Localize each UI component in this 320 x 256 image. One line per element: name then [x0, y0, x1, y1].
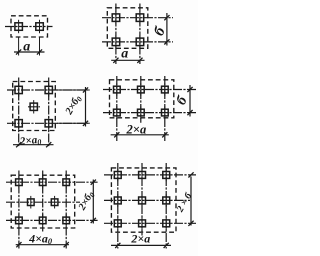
- fig6 pile 2: [139, 169, 146, 182]
- fig3 extension lines right: [57, 90, 90, 123]
- fig1 cap dashed rectangle: [11, 16, 48, 37]
- dimension 2xa0 (fig3 bottom): [13, 142, 54, 147]
- fig6 pile 7: [114, 217, 121, 230]
- fig4 pile 3: [162, 83, 169, 96]
- fig2 pile 1: [112, 11, 120, 25]
- svg-text:a: a: [121, 47, 128, 62]
- fig3 cap dashed rectangle: [13, 82, 56, 131]
- fig5 horizontal centerline row3: [6, 219, 98, 221]
- dimension 2xa (fig6 bottom): [111, 243, 171, 248]
- dimension 2xa (fig4 bottom): [111, 132, 169, 137]
- fig5 pile 4: [28, 196, 35, 209]
- fig3 pile 1: [15, 83, 22, 96]
- fig3 center pile horizontal tick: [28, 106, 40, 108]
- svg-text:a: a: [23, 40, 30, 55]
- fig6 pile 8: [139, 217, 146, 230]
- fig6 pile 1: [114, 169, 121, 182]
- fig6 horizontal centerline row1: [104, 174, 196, 176]
- fig5 pile 8: [63, 214, 70, 227]
- fig1 extension line right: [39, 38, 41, 56]
- dimension a (fig1): [14, 49, 45, 54]
- fig1 horizontal centerline: [5, 26, 53, 28]
- fig4 vertical centerline col3: [164, 76, 166, 141]
- fig2 vertical centerline col1: [115, 4, 117, 65]
- fig5 pile 5: [51, 196, 58, 209]
- fig4 pile 1: [114, 83, 121, 96]
- fig6 vertical centerline col1: [117, 163, 119, 249]
- fig5 vertical centerline col3: [65, 171, 67, 249]
- fig5 vertical centerline col1: [18, 171, 20, 249]
- fig4 pile 2: [138, 83, 145, 96]
- dimension 2xb (fig6 right): [188, 172, 193, 226]
- fig6 pile 5: [139, 194, 146, 207]
- fig3 center pile: [30, 100, 37, 113]
- fig5 horizontal centerline row2: [6, 201, 80, 203]
- fig4 vertical centerline col1: [116, 76, 118, 141]
- svg-text:2×a: 2×a: [126, 123, 147, 137]
- fig4 pile 4: [114, 106, 121, 119]
- fig3 horizontal centerline row2: [7, 122, 88, 124]
- fig4 horizontal centerline row1: [103, 89, 197, 91]
- fig5 pile 2: [39, 176, 46, 189]
- fig2 vertical centerline col2: [139, 4, 141, 65]
- fig5 horizontal centerline row1: [6, 181, 98, 183]
- fig3 horizontal centerline row1: [7, 89, 88, 91]
- fig3 vertical centerline col2: [48, 78, 50, 148]
- fig4 cap dashed rectangle: [110, 80, 174, 118]
- fig4 pile 5: [138, 106, 145, 119]
- dimension 2xb0 (fig3 right): [83, 87, 88, 127]
- fig3 pile 2: [45, 83, 52, 96]
- fig4 vertical centerline col2: [140, 76, 142, 123]
- dimension 4xa0 (fig5 bottom): [16, 242, 69, 247]
- fig2 horizontal centerline row2: [102, 41, 173, 43]
- fig6 horizontal centerline row3: [104, 222, 196, 224]
- fig6 vertical centerline col2: [141, 163, 143, 236]
- fig4 pile 6: [162, 106, 169, 119]
- fig4 horizontal centerline row2: [103, 112, 197, 114]
- fig6 vertical centerline col3: [165, 163, 167, 249]
- fig3 pile 5: [45, 117, 52, 130]
- fig5 pile 1: [16, 176, 23, 189]
- fig1 extension line left: [18, 38, 20, 56]
- fig2 horizontal centerline row1: [102, 17, 173, 19]
- fig6 cap dashed rectangle: [111, 168, 176, 232]
- fig6 pile 4: [114, 194, 121, 207]
- fig5 pile 7: [39, 214, 46, 227]
- fig5 vertical centerline col2: [42, 171, 44, 232]
- dimension b (fig2 right): [164, 13, 169, 46]
- svg-text:2×a: 2×a: [130, 232, 150, 246]
- fig1 pile 2: [36, 20, 44, 33]
- fig2 pile 3: [112, 35, 120, 49]
- fig1 pile 1: [15, 20, 23, 33]
- fig3 vertical centerline col1: [18, 78, 20, 148]
- fig5 pile 3: [63, 176, 70, 189]
- dimension a (fig2 bottom): [111, 58, 144, 63]
- dimension b (fig4 right): [187, 85, 192, 117]
- fig2 pile 4: [136, 35, 144, 49]
- fig6 pile 3: [163, 169, 170, 182]
- fig3 pile 4: [15, 117, 22, 130]
- fig5 cap dashed rectangle: [11, 175, 74, 228]
- fig5 pile 6: [16, 214, 23, 227]
- fig6 horizontal centerline row2: [104, 199, 190, 201]
- fig6 pile 9: [163, 217, 170, 230]
- dimension 2xb0 (fig5 right): [91, 180, 96, 224]
- fig6 pile 6: [163, 194, 170, 207]
- fig2 pile 2: [136, 11, 144, 25]
- fig2 cap dashed rectangle: [107, 8, 148, 49]
